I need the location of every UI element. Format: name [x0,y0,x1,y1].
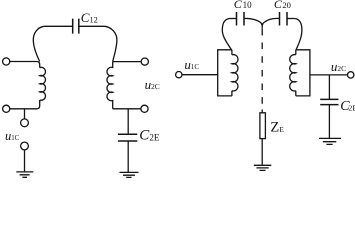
wire: C12 right lead [79,25,105,27]
wire: C10 right lead to middle node [244,18,262,24]
wire: S-curve from C12 right lead to L2 top [105,26,117,61]
transformer T1 frame (left rectangle) [218,50,232,96]
node: output terminal u2C of right circuit [348,72,354,78]
transformer T1 winding [232,55,238,91]
svg-text:C2E: C2E [139,128,160,144]
wire: C10 left lead [230,18,237,20]
wire: L1 bottom segment [10,100,40,109]
svg-text:u2C: u2C [145,77,160,92]
wire: S-curve from C20 right lead to T2 top [295,19,302,50]
svg-text:u1C: u1C [184,57,199,72]
wire: S-curve from T1 top to C10 left lead [222,19,231,50]
wire: T2 tap to output terminal [310,74,348,76]
transformer T2 frame (right rectangle) [296,50,310,96]
wire: L2 bottom to bottom-right terminal [113,108,141,110]
wire: ZE to ground [261,139,263,166]
impedance ZE box [260,113,266,139]
ground (under C2E left circuit) [120,172,139,177]
node: top-right terminal of left circuit [141,58,148,65]
wire: dashed segment to ZE [261,29,263,111]
node: input terminal u1C of right circuit [176,72,182,78]
node: lower port terminal [21,142,29,150]
transformer T2 winding [290,55,296,91]
wire: lower terminal to ground [24,150,26,172]
wire: junction drop to port terminal [24,109,26,119]
wire: input terminal to transformer T1 tap [182,74,218,76]
svg-text:C20: C20 [274,0,291,11]
wire: top-left terminal to L1 top [10,62,40,68]
capacitor C10 [237,12,245,26]
ground (under ZE) [254,165,271,170]
capacitor C2E (right circuit) [320,99,338,104]
node: bottom-left terminal of left circuit [3,105,10,112]
wire: L2 top to top-right terminal [113,61,142,63]
svg-text:C12: C12 [81,10,98,25]
node: bottom-right terminal of left circuit [141,105,148,112]
wire: junction drop to C2E [127,109,129,134]
capacitor C12 [73,19,79,34]
wire: middle node stub [261,25,263,29]
svg-text:u1C: u1C [5,129,20,143]
inductor L2 (right coil of left circuit) [107,62,113,109]
svg-text:C10: C10 [234,0,252,11]
wire: C2E to ground [127,141,129,172]
capacitor C2E (left circuit) [118,134,137,141]
wire: C20 right lead [287,18,295,20]
wire: middle node to C20 left lead [262,18,279,24]
node: upper port terminal u1C [21,119,29,127]
inductor L1 (left coil of left circuit) [40,67,46,100]
svg-text:C2E: C2E [340,99,355,114]
node M (junction of C10 and C20) [261,23,263,25]
wire: S-curve from L1 top to C12 left lead [33,26,44,61]
capacitor C20 [280,12,288,26]
wire: junction drop to C2E (right circuit) [328,75,330,100]
svg-text:u2C: u2C [331,59,346,74]
wire: solid segment to ZE [261,110,263,114]
wire: C12 left lead [44,25,73,27]
node: top-left terminal of left circuit [3,58,10,65]
ground (under C2E right circuit) [319,138,341,144]
wire: C2E to ground (right circuit) [328,105,330,139]
ground (left circuit input) [16,172,33,177]
svg-text:ZE: ZE [270,120,284,136]
